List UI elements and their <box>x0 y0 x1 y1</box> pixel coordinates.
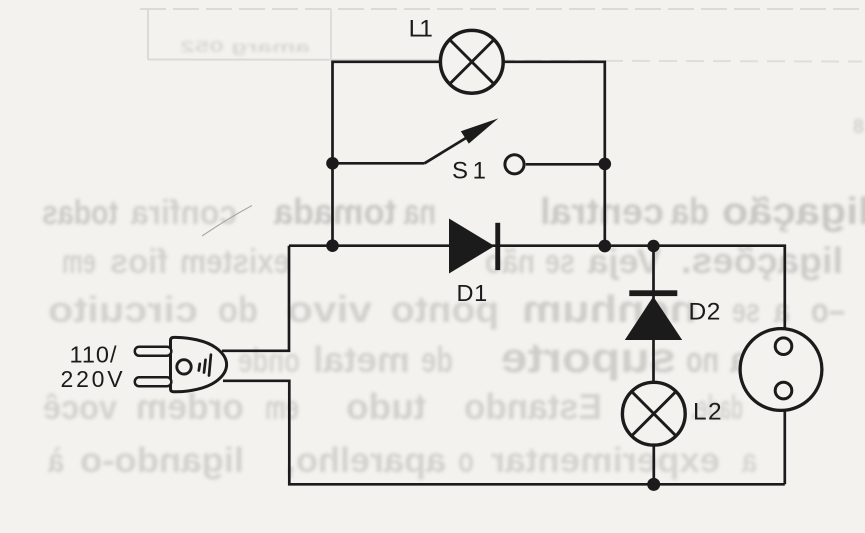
svg-text:onde: onde <box>238 342 300 380</box>
svg-text:central: central <box>540 191 664 232</box>
svg-text:circuito: circuito <box>48 289 198 330</box>
svg-text:se: se <box>545 243 575 281</box>
svg-text:tudo: tudo <box>346 386 426 427</box>
svg-text:existem: existem <box>180 243 290 281</box>
svg-text:a: a <box>773 292 790 330</box>
svg-text:110/: 110/ <box>70 342 118 368</box>
svg-text:a: a <box>741 442 757 480</box>
svg-text:em: em <box>265 389 299 427</box>
svg-text:S 1: S 1 <box>452 158 486 185</box>
svg-text:metal: metal <box>313 339 410 380</box>
svg-text:experimentar: experimentar <box>491 441 720 480</box>
svg-text:o: o <box>458 441 474 480</box>
svg-text:do: do <box>218 289 258 330</box>
svg-text:fios: fios <box>110 243 168 281</box>
svg-text:todas: todas <box>42 194 118 232</box>
svg-text:da: da <box>671 191 709 232</box>
svg-text:ligação: ligação <box>722 191 865 233</box>
svg-text:220V: 220V <box>61 366 126 392</box>
svg-text:se: se <box>732 292 760 330</box>
svg-text:8: 8 <box>853 116 864 138</box>
svg-text:L2: L2 <box>693 399 723 426</box>
svg-text:confira: confira <box>130 194 237 232</box>
svg-text:D2: D2 <box>689 299 722 326</box>
svg-text:Estando: Estando <box>464 386 602 427</box>
svg-text:L1: L1 <box>409 15 433 42</box>
svg-text:–o: –o <box>811 292 845 330</box>
svg-text:em: em <box>62 243 96 281</box>
svg-text:suporte: suporte <box>501 334 676 381</box>
svg-text:na: na <box>403 191 436 232</box>
svg-text:vivo: vivo <box>287 289 372 330</box>
svg-text:você: você <box>43 389 117 427</box>
svg-text:D1: D1 <box>457 280 488 306</box>
svg-text:de: de <box>421 339 453 380</box>
svg-text:não: não <box>485 243 535 281</box>
svg-text:tomada: tomada <box>273 191 396 232</box>
svg-text:à: à <box>48 442 64 480</box>
svg-text:no: no <box>686 339 719 380</box>
svg-text:amarg 052: amarg 052 <box>180 39 310 56</box>
svg-text:ligando-o: ligando-o <box>80 441 244 480</box>
svg-text:aparelho,: aparelho, <box>286 441 446 480</box>
